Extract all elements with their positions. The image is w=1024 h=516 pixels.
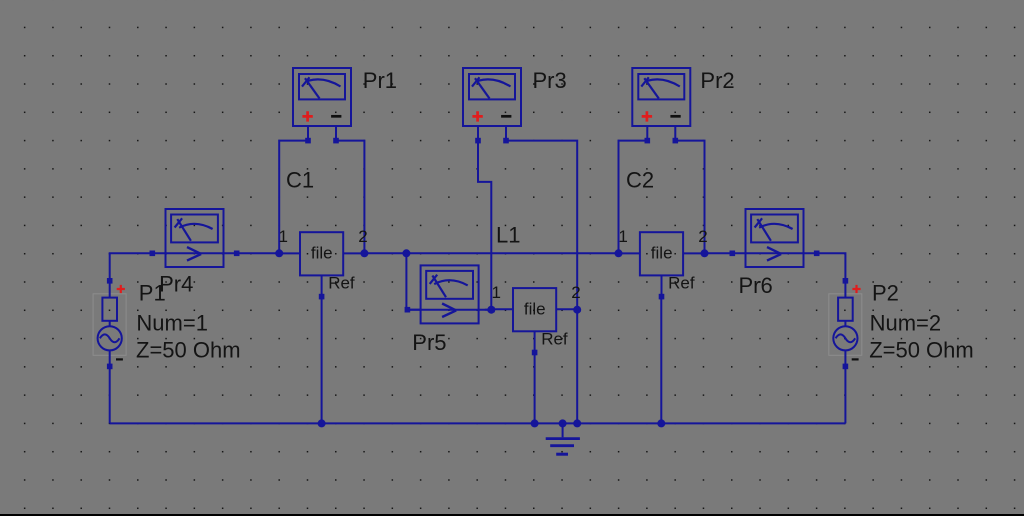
svg-text:C2: C2 [626,168,654,193]
svg-text:Pr3: Pr3 [533,68,567,93]
power source P1 bounding box [93,294,126,356]
svg-text:Pr2: Pr2 [700,68,734,93]
svg-text:Z=50 Ohm: Z=50 Ohm [136,337,241,362]
svg-text:Num=2: Num=2 [870,311,942,336]
Pr3 plus mark [472,111,482,121]
ammeter probe Pr4 [152,209,236,267]
junction ground node [559,419,567,427]
wire C2 pin2 to Pr6 [705,252,733,254]
svg-text:Pr5: Pr5 [412,330,446,355]
wire ground bus [110,422,846,424]
wire Pr5 to L1 pin1 [485,309,492,311]
power source P2 bounding box [829,294,862,356]
C1 pin 1 stub [279,252,300,254]
wire Pr6 to P2 top [816,253,845,281]
wire node B to C2 pin1 (main) [406,252,618,254]
terminal Pr4 pin 1 end [150,251,156,257]
svg-text:Pr1: Pr1 [363,68,397,93]
wire P1 top to Pr4 [110,253,153,280]
svg-text:2: 2 [358,227,367,246]
P1 plus mark [117,285,125,293]
wire Pr1 plus lead to node A [279,141,308,254]
bottom window edge [0,514,1024,516]
wire C2 Ref to bus [660,297,662,424]
wire P1 bottom to ground bus [109,366,111,423]
terminal Pr3 pin - end [503,138,509,144]
terminal P2 top terminal [843,278,849,284]
C1 pin 2 stub [343,252,364,254]
terminal Pr1 pin - end [333,138,339,144]
P1 minus mark [116,358,123,360]
terminal P1 bottom terminal [107,364,113,370]
terminal Pr5 pin 2 end [489,307,495,313]
svg-text:P1: P1 [139,281,166,306]
wire Pr2 plus lead to C2 pin1 [619,141,648,254]
C2 pin 1 stub [619,252,640,254]
junction node A (C1 pin1) [275,249,283,257]
junction C1 Ref at bus [318,419,326,427]
wire L1 Ref to bus [534,352,536,424]
L1 Ref pin stub [534,331,536,352]
terminal Pr6 pin 1 end [730,251,736,257]
svg-text:2: 2 [571,283,580,302]
junction C2 pin2 [701,249,709,257]
Pr2 plus mark [642,111,652,121]
ammeter probe Pr5 [407,265,491,323]
svg-text:Ref: Ref [541,330,568,349]
voltmeter probe Pr2 [632,68,690,141]
terminal L1 Ref pin end [532,350,538,356]
terminal C2 Ref pin end [659,294,665,300]
L1 pin 1 stub [492,308,513,310]
wire Pr3 plus lead to L1 pin1 [478,141,491,310]
terminal Pr3 pin + end [475,138,481,144]
ammeter probe Pr6 [732,209,816,267]
terminal Pr4 pin 2 end [234,251,240,257]
power source P1 symbol [98,281,122,367]
svg-text:file: file [651,244,673,263]
Pr2 minus mark [670,115,680,118]
wire node B down to Pr5 [405,253,408,309]
C2 Ref pin stub [661,275,663,296]
voltmeter probe Pr1 [293,68,351,141]
wire Pr2 minus lead to C2 pin2 [675,141,705,254]
terminal P2 bottom terminal [843,364,849,370]
svg-text:1: 1 [492,283,501,302]
P2 minus mark [852,358,859,360]
L1 pin 2 stub [556,308,577,310]
svg-text:L1: L1 [496,223,520,248]
wire Pr3 minus lead down to bus [506,141,577,424]
wire C1 Ref to bus [321,296,323,423]
junction L1 pin1 [487,306,495,314]
svg-text:2: 2 [698,227,707,246]
svg-text:Pr6: Pr6 [739,273,773,298]
P2 plus mark [852,285,860,293]
svg-text:file: file [311,244,333,263]
junction C2 pin1 [615,249,623,257]
wire Pr5 pin1 stub [407,309,420,311]
ground symbol [546,423,580,454]
wire Pr4 to node A [237,252,280,254]
subcircuit C2 (file) box [640,232,683,275]
svg-text:P2: P2 [872,281,899,306]
junction C2 Ref at bus [657,419,665,427]
svg-text:file: file [524,300,546,319]
terminal P1 top terminal [107,278,113,284]
subcircuit L1 (file) box [513,288,556,331]
junction L1 pin2 [573,306,581,314]
svg-text:1: 1 [618,227,627,246]
terminal Pr2 pin + end [645,138,651,144]
svg-text:C1: C1 [286,168,314,193]
power source P2 symbol [833,281,857,367]
C2 pin 2 stub [683,252,704,254]
junction node B [402,249,410,257]
terminal Pr1 pin + end [305,138,311,144]
wire P2 bottom to ground bus [844,366,846,423]
subcircuit C1 (file) box [300,232,343,275]
wire node A to node B (main) [364,252,406,254]
svg-text:Ref: Ref [328,274,355,293]
junction Pr3 lead at bus [573,419,581,427]
junction C1 pin2 [360,249,368,257]
C1 Ref pin stub [321,275,323,296]
terminal Pr2 pin - end [673,138,679,144]
junction L1 Ref at bus [531,419,539,427]
wire Pr1 minus lead to C1 pin2 [336,141,364,254]
Pr1 plus mark [302,111,312,121]
voltmeter probe Pr3 [463,68,521,141]
svg-text:Z=50 Ohm: Z=50 Ohm [869,337,974,362]
Pr3 minus mark [501,115,511,118]
terminal Pr5 pin 1 end [405,307,411,313]
terminal Pr6 pin 2 end [814,251,820,257]
Pr1 minus mark [331,115,341,118]
terminal C1 Ref pin end [319,294,325,300]
svg-text:1: 1 [279,227,288,246]
svg-text:Ref: Ref [668,274,695,293]
svg-text:Num=1: Num=1 [136,311,208,336]
